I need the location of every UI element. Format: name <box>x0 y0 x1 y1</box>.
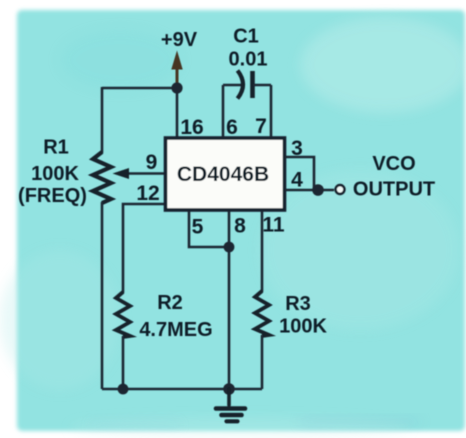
wire: pin 4 to output terminal <box>285 189 334 192</box>
ground symbol <box>216 389 245 421</box>
svg-text:100K: 100K <box>279 316 327 338</box>
svg-text:4.7MEG: 4.7MEG <box>139 319 212 341</box>
node: pins 3-4 junction <box>312 184 324 196</box>
svg-text:(FREQ): (FREQ) <box>18 185 87 207</box>
node: ground junction <box>223 383 235 395</box>
node: R2 on ground rail <box>118 384 129 395</box>
wire: R3 bottom to ground rail <box>261 335 264 389</box>
svg-text:4: 4 <box>291 169 303 192</box>
wire: pin 9 to R1 wiper <box>128 172 164 175</box>
wire: pin 8 column to ground rail <box>228 211 231 389</box>
svg-text:8: 8 <box>234 215 246 238</box>
wire: C1 left lead <box>223 84 242 87</box>
svg-text:OUTPUT: OUTPUT <box>353 179 435 201</box>
svg-text:R2: R2 <box>157 292 183 314</box>
potentiometer R1 zigzag <box>93 152 111 203</box>
+9V supply arrow <box>171 51 182 87</box>
wire: R2 bottom to ground rail <box>122 336 125 389</box>
wire: pin 3 jog to output node <box>285 157 314 190</box>
resistor R2 zigzag <box>116 292 130 337</box>
capacitor C1 curved plate <box>238 71 244 99</box>
svg-text:0.01: 0.01 <box>229 49 268 71</box>
svg-text:7: 7 <box>255 115 267 138</box>
svg-text:6: 6 <box>226 116 238 139</box>
output terminal circle <box>336 185 345 194</box>
wire: pin 5 jog to pin 8 column <box>189 211 229 247</box>
wire: pin 7 to C1 <box>270 85 273 137</box>
node: pin 5/8 junction <box>224 242 235 253</box>
node: +9V junction <box>171 82 182 93</box>
svg-text:3: 3 <box>291 137 303 160</box>
R1 wiper arrowhead <box>113 168 130 179</box>
svg-text:+9V: +9V <box>161 29 198 51</box>
wire: pin 12 to R2 column <box>123 204 164 293</box>
wire: bottom ground rail <box>102 388 262 391</box>
svg-text:12: 12 <box>136 182 159 205</box>
svg-text:11: 11 <box>262 214 285 237</box>
svg-text:9: 9 <box>146 151 158 174</box>
wire: left column lower segment <box>101 202 104 389</box>
resistor R3 zigzag <box>255 291 269 336</box>
svg-text:VCO: VCO <box>372 153 415 175</box>
wire: pin 6 to C1 <box>222 85 225 137</box>
svg-text:CD4046B: CD4046B <box>177 163 269 186</box>
capacitor C1 straight plate <box>250 71 255 98</box>
svg-text:100K: 100K <box>31 163 79 185</box>
svg-text:C1: C1 <box>233 26 259 48</box>
wire: C1 right lead <box>253 84 271 87</box>
svg-text:R1: R1 <box>43 137 69 159</box>
wire: pin 11 upper segment <box>261 211 264 292</box>
wire: left column upper segment <box>101 87 104 153</box>
wire: pin 16 from +9V node to IC top <box>176 88 179 137</box>
svg-text:16: 16 <box>180 116 203 139</box>
op IC U1 CD4046B body <box>166 138 285 210</box>
wire: top rail from left column to +9V node <box>102 87 177 90</box>
svg-text:5: 5 <box>192 216 204 239</box>
svg-text:R3: R3 <box>285 293 311 315</box>
